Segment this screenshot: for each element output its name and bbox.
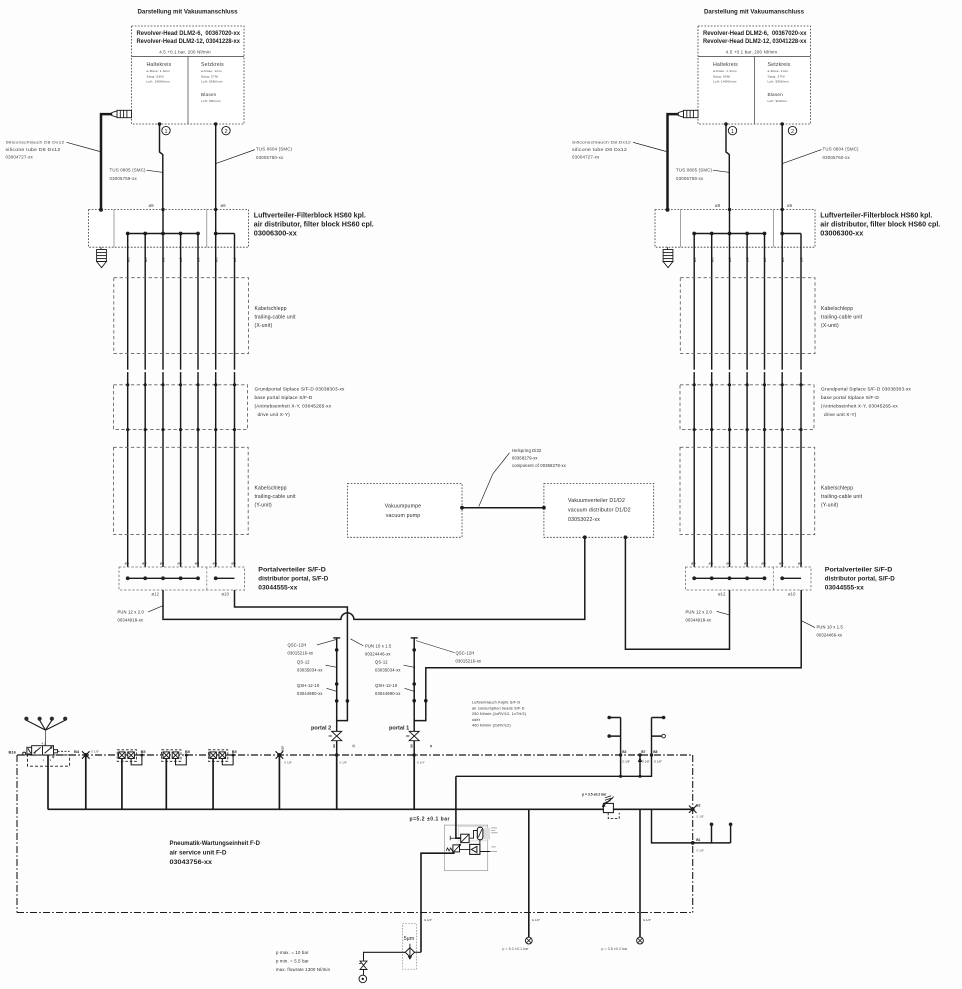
node port 2 of head [214,122,218,126]
svg-text:G 1/8″: G 1/8″ [654,759,662,763]
svg-text:trailing-cable unit: trailing-cable unit [255,315,297,321]
svg-text:Blasen: Blasen [201,92,217,97]
svg-text:air distributor, filter block: air distributor, filter block HS60 cpl. [254,222,374,229]
svg-text:drive unit X-Y): drive unit X-Y) [258,412,291,417]
svg-text:silicone tube D8 Dx12: silicone tube D8 Dx12 [6,147,61,152]
svg-text:5µm: 5µm [404,936,415,942]
svg-text:1: 1 [165,129,168,135]
svg-text:B1: B1 [696,838,700,842]
svg-text:ø12: ø12 [152,592,160,597]
wire distribution tube 3 [180,234,182,568]
wire distribution tube 6 (o8 feed) [162,210,164,568]
svg-text:ø6: ø6 [161,257,166,262]
label TUS 0805 [110,168,147,181]
svg-text:p = 3.5 ±0.2 bar: p = 3.5 ±0.2 bar [602,947,629,951]
air distributor filter block HS60 [89,210,249,248]
tube break marks between X unit and base portal [126,370,129,372]
svg-text:B9: B9 [332,744,336,748]
wire silicone tube D8 to filter block [101,114,112,209]
wire tube TUS0604 from port 2 to filter block [215,124,217,210]
node portal pass-through x=234.5 [233,383,236,386]
svg-text:G 1/4″: G 1/4″ [532,918,540,922]
svg-text:B4: B4 [74,749,80,754]
svg-text:B8: B8 [653,750,657,754]
svg-text:QSC-12H: QSC-12H [456,651,475,656]
coupling station B5 (box 2) [162,750,181,762]
svg-text:ø6: ø6 [160,562,164,566]
wire distribution tube 2 [144,234,146,568]
svg-text:trailing-cable unit: trailing-cable unit [255,494,297,500]
label o6 rotated x7 below filter block [125,257,237,262]
wire regulated output to inlet port [421,853,455,952]
svg-text:ø6: ø6 [221,203,227,208]
svg-text:03015216-xx: 03015216-xx [288,651,314,656]
svg-text:B3: B3 [622,750,626,754]
svg-text:03005759-xx: 03005759-xx [110,176,138,181]
svg-text:vacuum distributor D1/D2: vacuum distributor D1/D2 [568,508,631,514]
svg-text:00368279-xx: 00368279-xx [512,456,538,461]
label PUN 10 x 1.5 (right) [817,625,844,638]
svg-text:(X-unit): (X-unit) [255,323,273,329]
vacuum pump box [348,484,463,538]
node port 1 of head [158,122,162,126]
svg-text:ø10: ø10 [222,592,230,597]
svg-text:03004727-xx: 03004727-xx [6,154,34,159]
svg-text:portal 2: portal 2 [311,726,331,732]
flow arrow up on B7 drop [638,757,642,762]
svg-text:ø6: ø6 [125,257,130,262]
svg-text:B6: B6 [410,744,414,748]
svg-text:air service unit F-D: air service unit F-D [170,850,227,857]
svg-text:portal 1: portal 1 [389,726,409,732]
vacuum distributor D1/D2 box [544,484,654,538]
label QSH-12-10 portal1 [375,683,401,696]
svg-text:component of 00368278-xx: component of 00368278-xx [512,463,566,468]
label PUN 12 x 2.0 (right) [686,610,713,623]
node silicone tube inlet [99,208,103,212]
label QS-12 portal2 [297,660,323,673]
portal 2 station couplings [333,637,340,639]
svg-text:QSH-12-10: QSH-12-10 [375,683,398,688]
labels B3 B7 B8 [622,750,657,754]
svg-text:G 1/8″: G 1/8″ [91,750,99,754]
node manifold junction x=215.7 [214,232,218,236]
node manifold junction x=163 [161,232,165,236]
label valve ports [42,742,52,762]
wire drop from valve B16 [47,755,49,809]
wire internal manifold of filter block [128,233,198,235]
svg-text:ø-Düse: 1mm: ø-Düse: 1mm [201,69,222,73]
inlet filter 5um [403,924,417,970]
check valve at source [360,961,367,969]
svg-text:ø6: ø6 [195,562,199,566]
coupling station B5 (box 3) [208,750,227,762]
wire bypass loop [222,755,233,765]
wire distribution tube 7 (o6 feed) [215,210,217,568]
svg-text:03053022-xx: 03053022-xx [568,517,600,523]
base portal Siplace dashed box [114,385,248,430]
node portal distributor junction x=163 [161,576,165,580]
svg-text:ø6: ø6 [196,257,201,262]
svg-text:QSH-12-10: QSH-12-10 [297,683,320,688]
svg-text:B5: B5 [141,750,146,754]
test port gauge p=5.2 [525,937,532,944]
plugged port B4 on bus [82,751,90,758]
svg-text:Luft: 140Nl/min: Luft: 140Nl/min [147,80,171,84]
portal distributor box [119,567,245,590]
portal 1 station couplings [411,637,418,639]
wire distribution tube 5 [234,234,236,568]
label rotated port ids at portals [332,744,433,748]
svg-text:Kabelschlepp: Kabelschlepp [255,306,287,312]
node portal pass-through x=215.7 [214,383,217,386]
label QS-12 portal1 [375,660,401,673]
valve shutoff portal 1 [413,721,415,755]
svg-text:TUS 0604 (SMC): TUS 0604 (SMC) [256,147,293,152]
svg-text:4.5 +0.1 bar, 200 Nl/min: 4.5 +0.1 bar, 200 Nl/min [159,49,211,54]
tiny annotations [491,828,497,852]
node manifold junction x=180.6 [179,232,183,236]
svg-text:G 1/2″: G 1/2″ [424,918,432,922]
pressure gauge [477,827,483,840]
node portal distributor junction x=215.7 [214,576,218,580]
wire pump to distributor [462,507,544,509]
pressure regulator 3.5 bar [603,803,613,812]
node portal pass-through x=127.7 [126,383,129,386]
svg-text:G 1/4″: G 1/4″ [643,918,651,922]
svg-text:Revolver-Head DLM2-12, 0304122: Revolver-Head DLM2-12, 03041228-xx [137,38,241,45]
label air consumption heads [472,701,526,728]
node manifold junction x=198 [196,232,200,236]
wire drop to manifold line [121,759,123,810]
label supply spec [276,950,331,972]
label QSC-12H portal2 [288,643,314,656]
label PUN 12 x 2.0 (left) [118,610,145,623]
air supply source symbol [359,975,367,983]
svg-text:B16: B16 [9,750,17,755]
svg-text:B2: B2 [696,804,700,808]
svg-text:PUN 12 x 2.0: PUN 12 x 2.0 [686,610,713,615]
svg-text:QS-12: QS-12 [297,660,310,665]
svg-text:G 1/4″: G 1/4″ [339,761,347,765]
wire header to regulator feed [456,755,652,776]
label QSH-12-10 portal2 [297,683,323,696]
svg-text:Luftverteiler-Filterblock HS60: Luftverteiler-Filterblock HS60 kpl. [254,213,366,220]
svg-text:4 2: 4 2 [42,742,47,746]
label PUN 10 x 1.5 (center) [365,644,392,657]
svg-text:Vakuumverteiler D1/D2: Vakuumverteiler D1/D2 [568,498,625,504]
wire manifold line (regulated) [48,808,693,810]
wire main supply bus (dash-dot) [17,754,693,756]
solenoid valve B16 with manifold fan [24,717,28,721]
svg-text:Haltekreis: Haltekreis [147,62,172,68]
svg-text:distributor portal, S/F-D: distributor portal, S/F-D [258,576,328,583]
node portal pass-through x=198 [196,383,199,386]
svg-text:base portal Siplace S/F-D: base portal Siplace S/F-D [255,395,313,400]
svg-text:Luftverbrauch Köpfe S/F-D: Luftverbrauch Köpfe S/F-D [472,701,521,705]
svg-text:B10: B10 [280,746,284,752]
svg-text:ø8: ø8 [149,203,155,208]
svg-text:03044555-xx: 03044555-xx [258,585,297,592]
svg-text:Luft: 9Nl/min: Luft: 9Nl/min [201,99,221,103]
svg-text:G 1/4″: G 1/4″ [417,761,425,765]
svg-text:Helspring Di32: Helspring Di32 [512,448,542,453]
svg-text:03005760-xx: 03005760-xx [256,155,284,160]
svg-text:Pneumatik-Wartungseinheit F-D: Pneumatik-Wartungseinheit F-D [170,840,261,847]
wire drop from B10 [278,755,280,809]
svg-text:PUN 10 x 1.5: PUN 10 x 1.5 [365,644,392,649]
node portal distributor junction x=180.6 [179,576,183,580]
valve B16 pilot box (dashed) [28,755,70,766]
coupling station B5 (box 1) [117,750,136,762]
wire manifold right group [216,577,235,579]
svg-text:QS-12: QS-12 [375,660,388,665]
svg-text:ø6: ø6 [178,257,183,262]
wire o10 left portal to portal2 station [235,590,348,721]
svg-text:G 1/8″: G 1/8″ [696,815,704,819]
plugged port on bus (B10) [276,751,284,758]
svg-text:ø6: ø6 [213,562,217,566]
svg-text:Revolver-Head DLM2-6, 0036702: Revolver-Head DLM2-6, 00367020-xx [137,30,241,37]
node portal1 bus junction [413,753,416,756]
svg-text:Luft: 55Nl/min: Luft: 55Nl/min [201,80,223,84]
label Pneumatik-Wartungseinheit [170,840,261,866]
svg-text:03006300-xx: 03006300-xx [254,231,297,238]
svg-text:ø6: ø6 [213,257,218,262]
pressure regulator 5.2 [453,845,460,852]
svg-text:QSC-12H: QSC-12H [288,643,307,648]
svg-text:B5: B5 [232,750,237,754]
node portal distributor junction x=198 [196,576,200,580]
node manifold junction x=145.2 [143,232,147,236]
node distributor outlet right [624,535,628,539]
svg-text:G 1/8″: G 1/8″ [622,759,630,763]
svg-text:03044980-xx: 03044980-xx [297,691,323,696]
node manifold junction x=127.7 [126,232,130,236]
svg-text:air consumption heads S/F-D: air consumption heads S/F-D [472,706,525,710]
svg-text:G 1/8″: G 1/8″ [642,759,650,763]
capped stub ports B3 B7 B8 group [609,718,620,756]
wire manifold left group [128,577,198,579]
svg-text:00324466-xx: 00324466-xx [817,633,843,638]
svg-text:Siliconschlauch D8 Dx12: Siliconschlauch D8 Dx12 [6,140,65,145]
svg-text:Saug: 63Nl: Saug: 63Nl [147,74,164,78]
svg-text:2: 2 [225,129,228,135]
label Portalverteiler [258,567,328,592]
svg-text:ø6: ø6 [125,562,129,566]
svg-text:PUN 12 x 2.0: PUN 12 x 2.0 [118,610,145,615]
wire portal1 drop to manifold [413,755,415,809]
check valve [470,844,480,854]
svg-text:250 Nl/min (1xRV/12, 1xTH/2): 250 Nl/min (1xRV/12, 1xTH/2) [472,712,526,716]
wire to air source [364,952,406,961]
svg-text:ø-Düse: 1.3mm: ø-Düse: 1.3mm [147,69,171,73]
svg-text:B5: B5 [185,750,190,754]
nodes on bus [619,753,622,756]
filter element [461,834,469,842]
wire bypass loop [131,755,142,765]
svg-text:vacuum pump: vacuum pump [386,513,421,519]
svg-text:03035034-xx: 03035034-xx [375,668,401,673]
trailing cable unit Y dashed box [114,447,249,534]
svg-text:TUS 0805 (SMC): TUS 0805 (SMC) [110,168,147,173]
label QSC-12H portal1 [456,651,482,664]
svg-text:B7: B7 [641,750,645,754]
svg-text:p = 5.2 ±0.1 bar: p = 5.2 ±0.1 bar [503,947,530,951]
svg-text:G 1/8″: G 1/8″ [696,849,704,853]
svg-text:03044990-xx: 03044990-xx [375,691,401,696]
svg-text:00324446-xx: 00324446-xx [365,652,391,657]
svg-text:max. flowrate 1300 Nl/min: max. flowrate 1300 Nl/min [276,967,331,972]
wire o10 right portal to portal1 station [414,590,801,721]
wire tube TUS0805 from port 1 to filter block [160,124,163,210]
valve shutoff portal 2 [336,721,338,755]
node portal2 bus junction [335,753,338,756]
label Luftverteiler-Filterblock [254,213,374,238]
air service unit enclosure (dash-dot) [17,755,693,913]
wire drop from B4 [85,755,87,809]
assembly: revolver head + distributor column (left) [6,9,374,596]
assembly: revolver head + distributor column (right, translated copy) [572,9,940,596]
node distributor outlet left [583,535,587,539]
label o6 x7 above portal distributor [125,562,236,566]
wire port B1 branch with capped stubs [652,809,731,843]
wire o12 left portal to vacuum distributor (hump over crossing) [163,537,585,619]
wire distribution tube 1 [127,234,129,568]
svg-text:03043756-xx: 03043756-xx [170,859,213,866]
wire distribution tube 4 [197,234,199,568]
svg-text:(Antriebseinheit X-Y, 03045265: (Antriebseinheit X-Y, 03045265-xx [255,404,332,409]
wire o12 right portal to vacuum distributor [625,537,729,649]
svg-text:Darstellung mit Vakuumanschlus: Darstellung mit Vakuumanschluss [138,9,239,15]
trailing cable unit X dashed box [114,278,249,354]
wire drop to manifold line [165,759,167,810]
svg-text:Grundportal Siplace S/F-D 0303: Grundportal Siplace S/F-D 03038303-xx [255,387,346,392]
label Helspring hose [512,448,566,468]
svg-text:Portalverteiler S/F-D: Portalverteiler S/F-D [258,567,326,574]
node portal pass-through x=180.6 [179,383,182,386]
connector plug on head left side [112,110,132,117]
label TUS 0604 [256,147,293,160]
svg-text:03035034-xx: 03035034-xx [297,668,323,673]
svg-text:p = 3.5 ±0.2 bar: p = 3.5 ±0.2 bar [582,792,607,796]
plugged port B2 [689,806,697,813]
svg-text:p max. = 10 bar: p max. = 10 bar [276,950,309,955]
svg-text:oder: oder [472,718,481,722]
svg-text:ø6: ø6 [177,562,181,566]
wire feed from header [456,776,461,838]
svg-text:Setzkreis: Setzkreis [201,62,224,68]
node portal distributor junction x=145.2 [143,576,147,580]
svg-text:p min. = 5.5 bar: p min. = 5.5 bar [276,959,309,964]
wire portal2 drop to manifold [336,755,338,809]
silencer on filter block [97,247,107,267]
svg-text:ø6: ø6 [142,562,146,566]
wire drop to manifold line [212,759,214,810]
wire drop to test port 5.2 [528,809,530,937]
svg-text:00344918-xx: 00344918-xx [686,618,712,623]
node portal pass-through x=163 [161,383,164,386]
svg-text:Kabelschlepp: Kabelschlepp [255,486,287,492]
svg-text:400 Nl/min (2xRV/12): 400 Nl/min (2xRV/12) [472,724,511,728]
node portal distributor junction x=127.7 [126,576,130,580]
svg-text:00344918-xx: 00344918-xx [118,618,144,623]
label silicone tube [6,140,65,160]
svg-text:ø6: ø6 [232,257,237,262]
wire drop to test port 3.5 [639,809,641,937]
svg-text:Saug: 27Nl: Saug: 27Nl [201,74,218,78]
svg-text:p=5.2 ±0.1 bar: p=5.2 ±0.1 bar [410,817,450,823]
revolver head box U-head [132,26,245,124]
svg-text:G 1/8″: G 1/8″ [284,761,292,765]
svg-text:Vakuumpumpe: Vakuumpumpe [385,504,422,510]
label ports on bottom edge [424,918,651,922]
svg-text:(Y-unit): (Y-unit) [255,503,273,509]
svg-text:PUN 10 x 1.5: PUN 10 x 1.5 [817,625,844,630]
test port gauge p=3.5 [637,937,644,944]
svg-text:ø6: ø6 [143,257,148,262]
svg-text:ø6: ø6 [231,562,235,566]
node portal pass-through x=145.2 [144,383,147,386]
svg-text:03015216-xx: 03015216-xx [456,659,482,664]
wire bypass loop [176,755,187,765]
